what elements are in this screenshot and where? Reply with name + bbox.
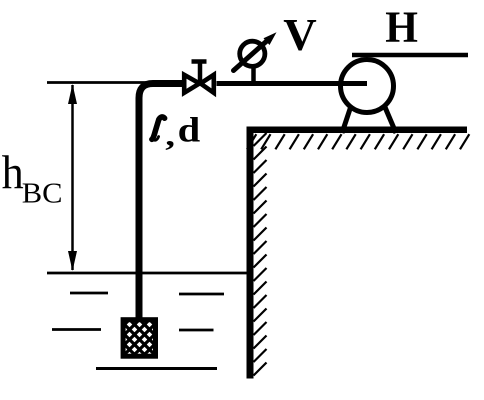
pump U1: left support leg — [342, 106, 351, 133]
wire: horizontal suction pipe from valve to pump center — [217, 81, 368, 86]
svg-text:H: H — [385, 4, 418, 52]
pump U1: casing circle — [341, 60, 394, 113]
svg-text:d: d — [178, 111, 201, 150]
gauge V: arrowhead — [264, 32, 277, 45]
wire: water dash row 1 right — [179, 293, 224, 296]
pump U1: right support leg — [385, 106, 397, 133]
ground: vertical wall of pit — [247, 127, 254, 379]
wire: water dash row 1 left — [70, 292, 108, 295]
wire: suction pipe (vertical riser with elbow) — [139, 84, 184, 320]
ground: hatching along vertical wall — [254, 133, 267, 376]
strainer: foot valve box with mesh — [73, 303, 246, 366]
wire: water surface line — [47, 272, 247, 275]
node: upper arrowhead — [68, 84, 77, 104]
wire: tank bottom line — [96, 367, 217, 370]
wire: water dash row 2 left — [52, 328, 101, 331]
svg-text:BC: BC — [22, 179, 63, 210]
node: lower arrowhead — [68, 251, 77, 271]
ground: hatching under horizontal surface — [247, 134, 469, 149]
gauge V: vacuum gauge stem — [251, 66, 256, 83]
gauge V: circle — [240, 41, 265, 66]
wire: water dash row 2 right — [179, 329, 214, 332]
svg-text:,: , — [165, 119, 175, 153]
valve stem — [198, 62, 203, 84]
wire: discharge pipe H — [352, 53, 468, 58]
svg-text:V: V — [283, 10, 316, 60]
gauge V: diagonal arrow shaft — [234, 39, 270, 71]
node: label l,d — [152, 117, 165, 140]
wire: vertical dimension line h_BC — [71, 85, 74, 270]
wire: dimension extension line at pipe level — [47, 81, 152, 84]
svg-text:h: h — [2, 146, 24, 199]
ground: horizontal ground surface — [247, 127, 468, 134]
valve: gate valve bowtie — [184, 62, 214, 93]
valve handle T-bar — [192, 59, 207, 64]
